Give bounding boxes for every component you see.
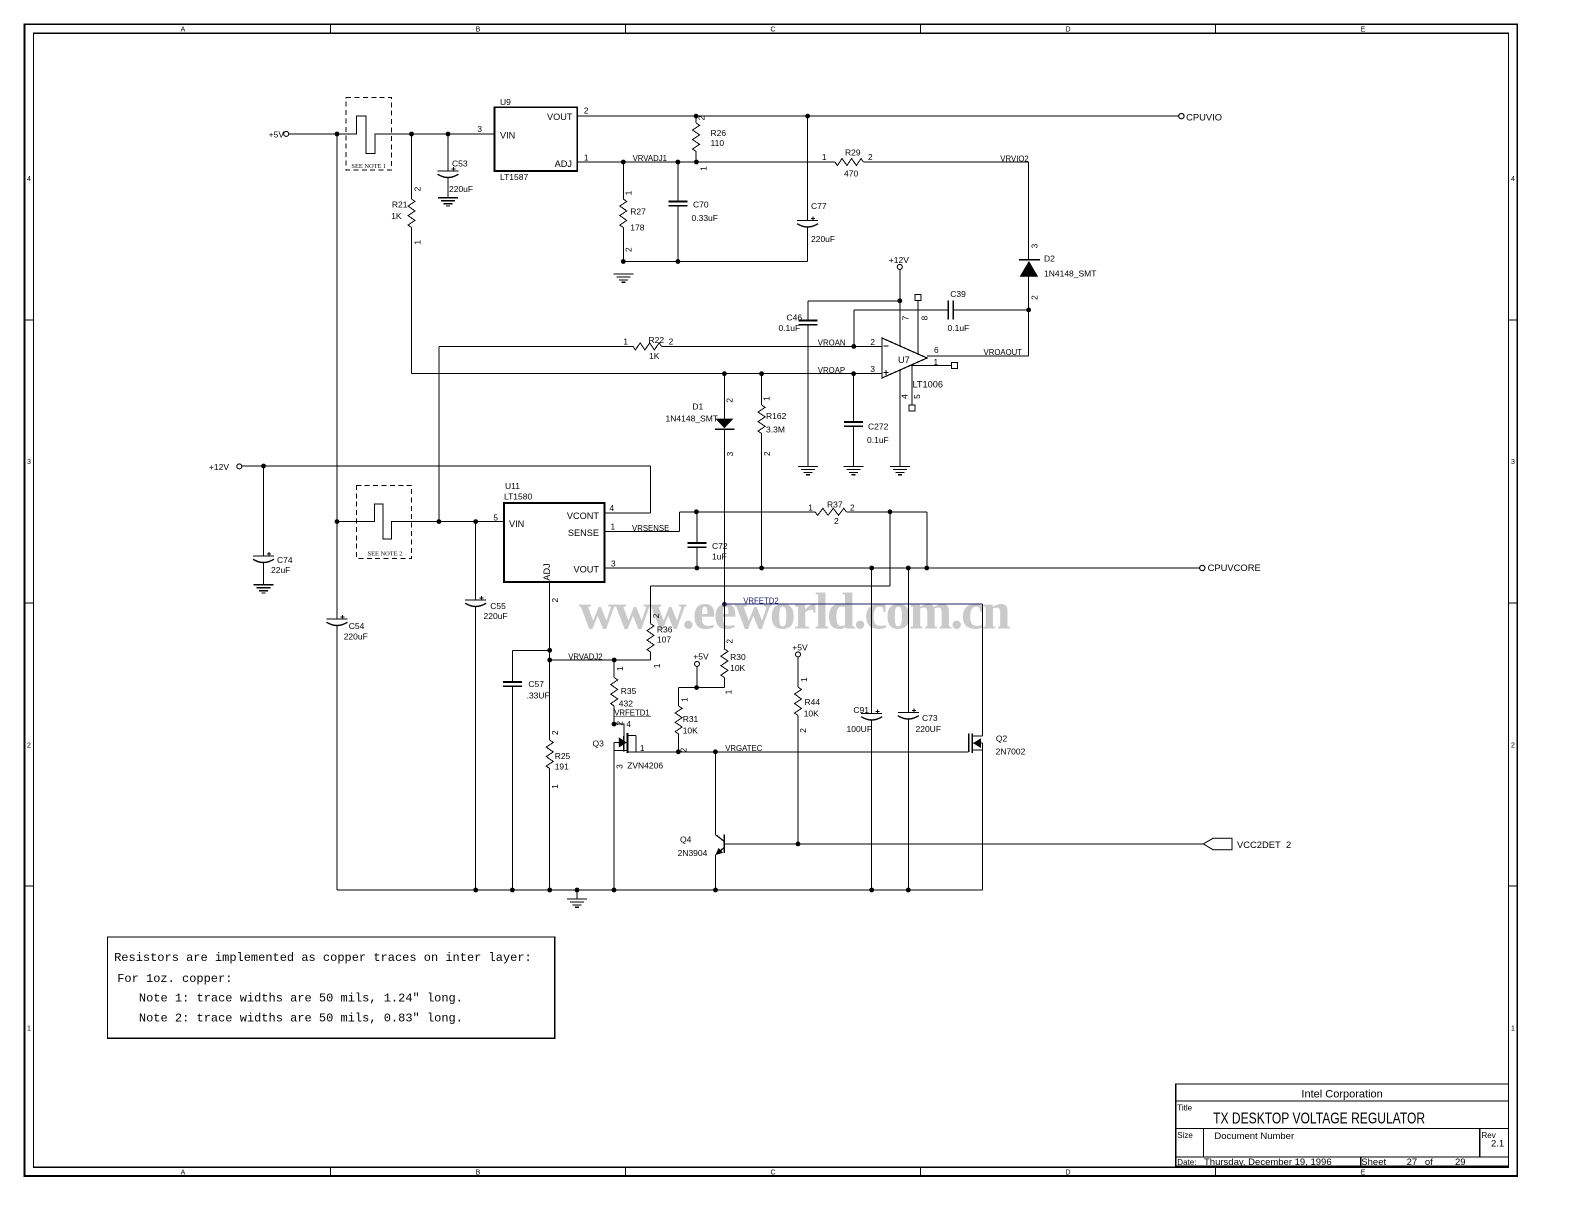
svg-text:8: 8	[920, 315, 930, 320]
svg-text:2: 2	[669, 337, 674, 347]
power +12V input	[237, 464, 242, 469]
power +5V input	[284, 131, 289, 136]
svg-text:www.eeworld.com.cn: www.eeworld.com.cn	[579, 584, 1010, 641]
wire C39 net	[854, 309, 949, 311]
svg-text:TX DESKTOP VOLTAGE REGULATOR: TX DESKTOP VOLTAGE REGULATOR	[1213, 1110, 1425, 1127]
svg-text:110: 110	[711, 138, 725, 148]
svg-text:+12V: +12V	[209, 462, 229, 472]
svg-text:1: 1	[611, 522, 616, 532]
svg-text:0.1uF: 0.1uF	[867, 435, 889, 445]
wire VRVADJ1 net	[577, 161, 835, 163]
svg-text:0.1uF: 0.1uF	[948, 323, 970, 333]
svg-text:ADJ: ADJ	[542, 563, 552, 580]
capacitor C72	[696, 512, 698, 543]
svg-text:27: 27	[1407, 1157, 1418, 1168]
svg-text:1: 1	[413, 240, 423, 245]
capacitor C55	[475, 522, 477, 600]
svg-text:3: 3	[870, 364, 875, 374]
resistor R44	[797, 657, 799, 687]
no-connect U7 pin 8	[917, 301, 919, 355]
svg-text:C: C	[770, 27, 775, 34]
svg-text:A: A	[181, 1170, 186, 1177]
svg-text:2: 2	[1511, 742, 1515, 749]
svg-text:3: 3	[611, 559, 616, 569]
svg-text:3: 3	[27, 459, 31, 466]
note 1 trace symbol	[346, 97, 391, 170]
ground U7 pin4	[890, 465, 910, 467]
svg-text:Date:: Date:	[1177, 1158, 1196, 1167]
svg-text:C77: C77	[811, 201, 827, 211]
svg-text:2: 2	[27, 742, 31, 749]
ground C74	[254, 584, 274, 586]
resistor R30	[723, 604, 725, 649]
capacitor C54	[327, 618, 348, 620]
svg-text:ZVN4206: ZVN4206	[627, 761, 663, 771]
wire VROAN feedback to C39	[853, 310, 855, 347]
svg-text:3: 3	[614, 764, 624, 769]
diode D1 1N4148_SMT	[723, 374, 725, 419]
svg-text:D: D	[1065, 27, 1070, 34]
svg-text:R36: R36	[657, 625, 673, 635]
svg-text:Q2: Q2	[996, 734, 1008, 744]
svg-text:SEE NOTE 2: SEE NOTE 2	[368, 550, 403, 557]
wire ground bus	[336, 626, 338, 891]
svg-text:2: 2	[550, 730, 560, 735]
wire CPUVCORE net	[604, 567, 1199, 569]
svg-text:Title: Title	[1177, 1103, 1192, 1112]
capacitor C73	[907, 568, 909, 713]
ground C46	[798, 465, 818, 467]
ground C272	[844, 465, 864, 467]
svg-text:VOUT: VOUT	[547, 112, 573, 122]
wire VROAN net	[439, 345, 633, 347]
svg-text:C46: C46	[787, 313, 803, 323]
svg-text:0.33uF: 0.33uF	[692, 213, 718, 223]
wire +12V rail to VCONT	[242, 465, 651, 467]
capacitor C39	[947, 300, 949, 319]
svg-text:CPUVCORE: CPUVCORE	[1208, 562, 1261, 573]
svg-text:VIN: VIN	[509, 519, 524, 529]
svg-text:Size: Size	[1177, 1131, 1193, 1140]
svg-text:+12V: +12V	[889, 255, 909, 265]
wire VROAP net	[411, 228, 413, 374]
svg-text:1K: 1K	[649, 351, 660, 361]
svg-text:ADJ: ADJ	[555, 159, 572, 169]
svg-text:178: 178	[630, 223, 644, 233]
svg-text:D2: D2	[1044, 254, 1055, 264]
no-connect U7 pin 1	[910, 365, 952, 367]
wire VRGATEC net	[628, 751, 969, 753]
transistor Q3 ZVN4206	[612, 722, 617, 727]
wire +5V pullup node	[696, 666, 698, 687]
svg-text:VROAOUT: VROAOUT	[984, 348, 1023, 357]
node VCC2DET	[1203, 838, 1232, 849]
regulator U9 LT1587	[495, 107, 578, 171]
svg-text:Thursday, December 19, 1996: Thursday, December 19, 1996	[1204, 1157, 1332, 1168]
svg-text:LT1587: LT1587	[500, 172, 528, 182]
capacitor C46	[807, 301, 809, 321]
svg-text:5: 5	[912, 394, 922, 399]
capacitor C57	[511, 650, 513, 682]
resistor R31	[675, 706, 682, 734]
ground C53	[438, 197, 458, 199]
svg-text:5: 5	[493, 513, 498, 523]
svg-text:1K: 1K	[391, 211, 402, 221]
svg-text:1: 1	[724, 689, 734, 694]
svg-text:C55: C55	[490, 601, 506, 611]
svg-text:4: 4	[27, 176, 31, 183]
svg-text:1: 1	[623, 337, 628, 347]
svg-text:1: 1	[640, 743, 645, 753]
ground main bus	[576, 890, 578, 899]
svg-text:1: 1	[699, 166, 709, 171]
svg-text:4: 4	[626, 719, 631, 729]
svg-text:SEE NOTE 1: SEE NOTE 1	[351, 163, 386, 170]
svg-text:191: 191	[555, 761, 569, 771]
svg-text:2: 2	[870, 337, 875, 347]
node CPUVCORE	[1200, 565, 1205, 570]
svg-text:0.1uF: 0.1uF	[778, 323, 800, 333]
svg-text:LT1006: LT1006	[913, 380, 943, 390]
svg-text:4: 4	[610, 503, 615, 513]
svg-text:U11: U11	[505, 481, 520, 491]
svg-text:R31: R31	[683, 714, 699, 724]
svg-text:3: 3	[477, 124, 482, 134]
svg-text:1: 1	[615, 666, 625, 671]
op-amp U7 LT1006	[882, 338, 927, 378]
wire VRSENSE net	[604, 531, 679, 533]
wire VRVADJ2 net	[549, 582, 551, 660]
resistor R35	[613, 660, 615, 678]
svg-text:Q3: Q3	[593, 739, 605, 749]
wire VRFETD2 net	[724, 603, 982, 605]
svg-text:CPUVIO: CPUVIO	[1186, 111, 1222, 122]
svg-text:E: E	[1361, 1170, 1366, 1177]
svg-text:2: 2	[413, 186, 423, 191]
svg-text:C72: C72	[712, 541, 728, 551]
transistor Q4 2N3904	[715, 752, 717, 835]
svg-text:220uF: 220uF	[449, 184, 473, 194]
svg-text:C39: C39	[950, 289, 966, 299]
wire +5V feed to VIN/C54	[336, 134, 338, 619]
capacitor C272	[853, 374, 855, 422]
svg-text:2: 2	[615, 721, 625, 726]
svg-text:1: 1	[652, 663, 662, 668]
svg-text:2: 2	[550, 598, 560, 603]
svg-text:VRFETD1: VRFETD1	[614, 708, 650, 717]
svg-text:2: 2	[584, 105, 589, 115]
svg-text:100UF: 100UF	[847, 724, 873, 734]
svg-text:1: 1	[799, 677, 809, 682]
wire D2 cathode to C39	[1028, 277, 1030, 356]
svg-text:10K: 10K	[730, 663, 745, 673]
svg-text:1: 1	[584, 152, 589, 162]
svg-text:R26: R26	[711, 128, 727, 138]
svg-text:2: 2	[868, 152, 873, 162]
svg-text:VROAP: VROAP	[818, 366, 845, 375]
svg-text:A: A	[181, 27, 186, 34]
resistor R27	[622, 162, 624, 199]
svg-text:VOUT: VOUT	[573, 565, 599, 575]
wire analog ground R27/C70/C77	[623, 261, 807, 263]
svg-text:22uF: 22uF	[271, 565, 290, 575]
svg-text:C: C	[770, 1170, 775, 1177]
svg-text:1: 1	[680, 697, 690, 702]
svg-text:C272: C272	[868, 422, 889, 432]
svg-text:B: B	[476, 1170, 481, 1177]
svg-text:C70: C70	[693, 199, 709, 209]
svg-text:2: 2	[651, 613, 661, 618]
resistor R21	[411, 134, 413, 199]
wire +5V rail	[289, 116, 495, 154]
svg-text:R25: R25	[555, 751, 571, 761]
capacitor C70	[677, 162, 679, 202]
svg-text:6: 6	[934, 345, 939, 355]
ground R27/C70	[613, 273, 633, 275]
svg-text:VRGATEC: VRGATEC	[725, 744, 762, 753]
note 2 trace symbol	[356, 486, 411, 559]
wire +12V op-amp supply	[899, 269, 901, 346]
svg-text:B: B	[476, 27, 481, 34]
wire VROAOUT net	[927, 355, 1029, 357]
svg-text:1: 1	[550, 784, 560, 789]
svg-text:VRSENSE: VRSENSE	[632, 524, 669, 533]
resistor R22	[633, 343, 662, 350]
svg-text:1: 1	[624, 190, 634, 195]
wire U7 pin 4 to ground	[899, 370, 901, 466]
svg-text:Document Number: Document Number	[1214, 1131, 1294, 1142]
svg-text:2N3904: 2N3904	[678, 848, 708, 858]
svg-text:1N4148_SMT: 1N4148_SMT	[1044, 269, 1096, 279]
svg-text:1: 1	[822, 152, 827, 162]
svg-text:R29: R29	[845, 148, 861, 158]
svg-text:D1: D1	[692, 402, 703, 412]
svg-text:VROAN: VROAN	[818, 339, 846, 348]
svg-text:R35: R35	[621, 686, 637, 696]
resistor R26	[695, 116, 697, 123]
svg-text:2: 2	[725, 639, 735, 644]
resistor R25	[549, 660, 551, 740]
svg-text:Intel Corporation: Intel Corporation	[1301, 1089, 1382, 1101]
wire R37 tap to R36	[889, 512, 891, 586]
resistor R29	[835, 159, 864, 166]
svg-text:C54: C54	[349, 621, 365, 631]
svg-text:For 1oz. copper:: For 1oz. copper:	[117, 972, 232, 986]
svg-text:2: 2	[762, 451, 772, 456]
svg-text:10K: 10K	[804, 709, 819, 719]
svg-text:+5V: +5V	[693, 651, 709, 661]
svg-text:2: 2	[850, 503, 855, 513]
svg-text:VCC2DET 2: VCC2DET 2	[1237, 839, 1291, 850]
svg-text:1: 1	[762, 396, 772, 401]
svg-text:1: 1	[27, 1026, 31, 1033]
svg-text:VCONT: VCONT	[567, 511, 600, 521]
svg-text:C57: C57	[528, 679, 544, 689]
svg-text:SENSE: SENSE	[568, 528, 599, 538]
capacitor C74	[263, 466, 265, 556]
svg-text:2: 2	[1029, 295, 1039, 300]
svg-text:R44: R44	[805, 697, 821, 707]
svg-text:3: 3	[1029, 243, 1039, 248]
svg-text:of: of	[1425, 1157, 1433, 1168]
svg-text:2: 2	[679, 747, 689, 752]
svg-text:R27: R27	[630, 207, 646, 217]
svg-text:R162: R162	[766, 411, 787, 421]
svg-text:Note 1: trace widths are 50 mi: Note 1: trace widths are 50 mils, 1.24" …	[139, 991, 463, 1005]
svg-text:1: 1	[808, 503, 813, 513]
svg-text:4: 4	[900, 394, 910, 399]
svg-text:VRVADJ1: VRVADJ1	[633, 154, 667, 163]
diode D2 1N4148_SMT	[1019, 259, 1040, 261]
svg-text:2: 2	[798, 728, 808, 733]
power +12V op-amp	[897, 264, 902, 269]
svg-text:Q4: Q4	[680, 835, 692, 845]
capacitor C91	[871, 568, 873, 714]
svg-text:C53: C53	[452, 159, 468, 169]
resistor R37	[815, 508, 846, 515]
svg-text:.33UF: .33UF	[527, 690, 550, 700]
svg-text:2: 2	[834, 516, 839, 526]
svg-text:3: 3	[1511, 459, 1515, 466]
svg-text:470: 470	[844, 169, 858, 179]
wire VRVIO2 to D2	[1028, 162, 1030, 260]
svg-text:220UF: 220UF	[916, 724, 942, 734]
svg-text:220uF: 220uF	[484, 611, 508, 621]
svg-text:U7: U7	[898, 355, 910, 365]
svg-text:C73: C73	[922, 713, 938, 723]
svg-text:2: 2	[624, 247, 634, 252]
svg-text:VRVIO2: VRVIO2	[1000, 154, 1028, 163]
no-connect U7 pin 5	[911, 365, 913, 405]
svg-text:VRVADJ2: VRVADJ2	[568, 652, 602, 661]
svg-text:29: 29	[1455, 1157, 1466, 1168]
svg-text:U9: U9	[500, 97, 511, 107]
wire CPUVIO net	[577, 115, 1178, 117]
svg-text:C74: C74	[277, 555, 293, 565]
svg-text:VIN: VIN	[500, 131, 515, 141]
svg-text:2: 2	[725, 398, 735, 403]
svg-text:VRFETD2: VRFETD2	[743, 597, 779, 606]
svg-text:2: 2	[697, 115, 707, 120]
svg-text:D: D	[1065, 1170, 1070, 1177]
svg-text:Sheet: Sheet	[1361, 1157, 1386, 1168]
capacitor C77	[807, 116, 809, 220]
svg-text:107: 107	[657, 635, 671, 645]
svg-text:3.3M: 3.3M	[766, 425, 785, 435]
svg-text:220uF: 220uF	[811, 234, 835, 244]
svg-text:2N7002: 2N7002	[996, 747, 1026, 757]
svg-text:4: 4	[1511, 176, 1515, 183]
svg-text:R21: R21	[392, 199, 408, 209]
svg-text:3: 3	[725, 451, 735, 456]
svg-text:C91: C91	[853, 705, 869, 715]
svg-text:LT1580: LT1580	[504, 492, 532, 502]
svg-text:R37: R37	[827, 500, 843, 510]
svg-text:+5V: +5V	[269, 130, 285, 140]
svg-text:1N4148_SMT: 1N4148_SMT	[666, 414, 718, 424]
svg-text:R30: R30	[730, 652, 746, 662]
svg-text:220uF: 220uF	[344, 631, 368, 641]
power +5V pullup a	[695, 661, 700, 666]
transistor Q2 2N7002	[972, 735, 982, 737]
svg-text:Note 2: trace widths are 50 mi: Note 2: trace widths are 50 mils, 0.83" …	[139, 1011, 463, 1025]
svg-text:Resistors are implemented as c: Resistors are implemented as copper trac…	[114, 951, 532, 965]
node CPUVIO	[1179, 113, 1184, 118]
resistor R36	[650, 586, 652, 623]
svg-text:R22: R22	[649, 335, 665, 345]
capacitor C53	[447, 134, 449, 171]
svg-text:+5V: +5V	[792, 642, 808, 652]
wire U11 VIN rail	[337, 504, 504, 539]
wire VCC2DET net	[724, 843, 1203, 845]
svg-text:432: 432	[619, 698, 633, 708]
power +5V pullup b	[796, 652, 801, 657]
svg-text:2.1: 2.1	[1491, 1139, 1504, 1150]
regulator U11 LT1580	[504, 503, 604, 582]
svg-text:1: 1	[1511, 1026, 1515, 1033]
svg-text:7: 7	[901, 315, 911, 320]
svg-text:10K: 10K	[683, 726, 698, 736]
svg-text:E: E	[1361, 27, 1366, 34]
resistor R162	[761, 374, 763, 405]
